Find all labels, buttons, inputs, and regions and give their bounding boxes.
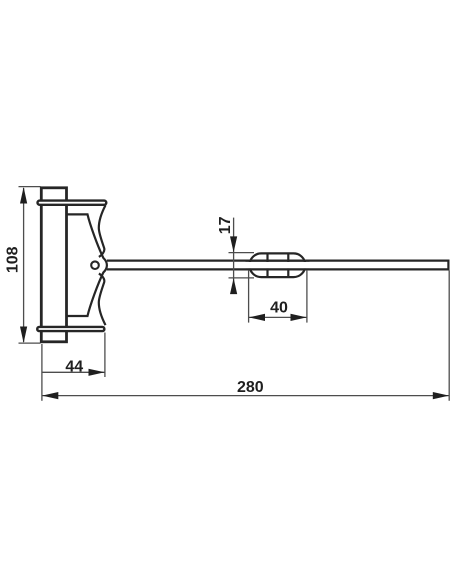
arrow up 108: [20, 187, 27, 204]
hole in bracket: [91, 261, 99, 269]
bracket outer spring edge bottom: [99, 274, 106, 326]
arrow left 40: [249, 314, 265, 321]
bracket inner top edge: [67, 214, 107, 316]
extension line right of 40: [306, 270, 308, 323]
arrow right 280: [433, 392, 449, 399]
back plate: [41, 188, 66, 342]
extension line bottom of 17: [229, 277, 255, 279]
dimension line 17: [233, 218, 235, 294]
dimension line 108: [23, 188, 25, 342]
svg-text:44: 44: [65, 358, 83, 375]
bracket outer spring edge top: [99, 205, 106, 257]
bottom mounting bar: [37, 327, 104, 331]
dimension line 280: [42, 395, 449, 397]
arrow down 17: [230, 236, 237, 252]
extension line left shared 44 280: [41, 344, 43, 401]
arrow up 17: [230, 278, 237, 294]
rod interior white band knockout over sleeve: [246, 262, 310, 268]
extension line top of 108: [19, 186, 41, 188]
dimension line 40: [249, 316, 307, 318]
extension line top of 17: [229, 252, 255, 254]
extension line left of 40: [248, 270, 250, 323]
arrow right 44: [89, 369, 105, 376]
svg-text:280: 280: [237, 379, 264, 396]
sleeve divider right: [287, 253, 289, 277]
dimension line 44: [42, 371, 105, 373]
sleeve divider left: [266, 253, 268, 277]
extension line right of 280: [448, 271, 450, 401]
arrow left 280: [42, 392, 58, 399]
rod lines redrawn over sleeve band: [246, 260, 310, 262]
extension line right of 44: [104, 333, 106, 378]
svg-text:17: 17: [217, 216, 234, 234]
svg-text:40: 40: [270, 300, 288, 317]
arrow down 108: [20, 327, 27, 344]
sleeve stadium on rod: [249, 253, 305, 277]
rod: [107, 261, 449, 270]
top mounting bar: [38, 201, 107, 205]
arrow right 40: [291, 314, 307, 321]
svg-text:108: 108: [5, 246, 22, 273]
extension line bottom of 108: [19, 342, 41, 344]
